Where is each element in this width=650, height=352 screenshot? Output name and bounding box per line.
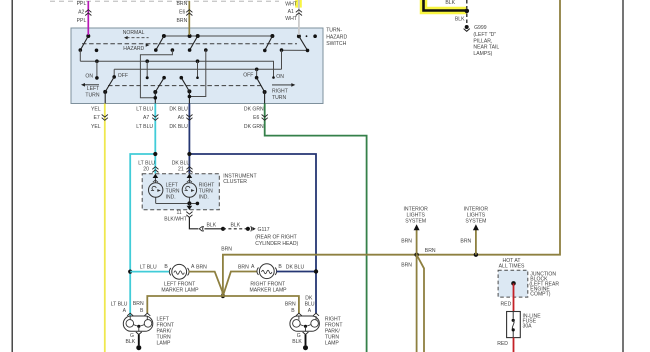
contact dot ON (left) [95,76,99,80]
wire BRN junction to right park lamp [223,296,299,313]
wire BRN down to bottom 1 [416,255,418,352]
wire DK BLU right marker to node [276,271,316,273]
svg-text:BLK: BLK [126,339,136,345]
svg-text:A: A [308,308,312,314]
wire BLK/WHT to G117 [189,217,198,228]
svg-text:CYLINDER HEAD): CYLINDER HEAD) [255,241,298,247]
svg-text:ALL TIMES: ALL TIMES [499,264,525,270]
wire: ON post (left) [96,61,98,78]
contact dot LT BLU blade top [162,76,166,80]
node: BRN junction 2 [474,253,478,257]
contact dot hazard (PPL pole) [95,49,99,53]
connector E6 on BRN [186,10,192,16]
svg-text:BLU: BLU [305,301,315,307]
wire: bus A horizontal [80,61,273,77]
node: BLK junction [465,9,470,14]
connector E6 on DK GRN [262,115,268,121]
switch blade (DK BLU pole) [181,78,189,92]
svg-text:COMPT): COMPT) [530,292,550,298]
svg-text:TURN: TURN [272,95,286,101]
wire: bus B horizontal [114,68,281,70]
svg-text:RIGHT: RIGHT [272,89,288,95]
wire DK BLU branch to right lamps [189,154,316,313]
LT BLU blade pivot [153,90,157,94]
switch blade (right turn) [257,78,265,92]
svg-text:BRN: BRN [425,248,436,254]
DK BLU blade pivot [187,89,191,93]
wire: contact down to bus A [79,50,81,61]
normal direction dashed arrow [127,37,149,39]
svg-text:RIGHT FRONT: RIGHT FRONT [250,282,285,288]
dashed BLK wire to G117 [223,228,248,230]
switch blade (link pole left) [156,36,164,50]
svg-text:TURN: TURN [85,92,99,98]
node: bus A post 3 [196,59,200,63]
top cut dashed line [50,0,279,2]
node: BRN entry [188,34,192,38]
wire WHT from column (top) [298,0,300,35]
node on DK BLU [187,152,191,156]
switch blade (link pole right) [265,36,273,50]
svg-text:11: 11 [177,210,182,216]
node: junction block terminal [511,281,516,286]
ground splice dot [303,345,308,350]
svg-text:(LEFT "D": (LEFT "D" [473,32,496,38]
svg-text:OFF: OFF [243,73,253,79]
pin 20 arrow [153,174,159,178]
svg-text:DK GRN: DK GRN [244,106,264,112]
switch blade (WHT pole) [299,36,308,50]
connector E7 on YEL [102,115,108,121]
node: bus A post 2 [145,59,149,63]
wire DK BLU from switch to cluster [188,104,190,174]
svg-text:NEAR TAIL: NEAR TAIL [473,45,499,51]
wire BRN feed from top right [223,0,560,296]
svg-text:IND.: IND. [166,195,176,201]
wire PPL from column (top) [87,1,89,35]
ground G117 terminal [246,227,250,231]
svg-text:E6: E6 [253,115,259,121]
svg-text:B: B [140,308,144,314]
node: LT BLU pivot feed join [154,96,158,100]
connector A6 on DK BLU [186,115,192,121]
wire BRN up to interior lights 2 [475,230,477,255]
svg-text:A2: A2 [78,10,84,16]
svg-text:BLK: BLK [445,0,455,6]
left front marker lamp L3 [169,268,171,275]
contact dot right (WHT row) [313,34,317,38]
svg-text:BLK: BLK [207,222,217,228]
wire: post 3 down [197,61,199,77]
svg-text:OFF: OFF [118,73,128,79]
svg-text:RED: RED [501,301,512,307]
svg-text:BRN: BRN [401,238,412,244]
contact dot under link pole left [154,48,158,52]
wire: top link line [164,35,273,37]
svg-text:BLK: BLK [292,339,302,345]
wire BLK to splice [205,228,224,230]
connector C1 A2 on PPL [85,10,91,16]
node: PPL entry pivot [86,34,90,38]
connector A1 on WHT [296,10,302,16]
wire BLK ground (right lamp) [305,335,307,346]
node: BRN blade pivot [196,34,200,38]
wire: LT BLU pivot to box edge [154,92,156,104]
svg-text:PILLAR,: PILLAR, [473,38,492,44]
svg-text:BRN: BRN [196,264,207,270]
switch blade (left turn) [105,77,114,92]
switch blade (hazard selector, PPL pole) [80,36,88,50]
wire: feed 2 to DK BLU pivot [189,50,205,96]
wire DK GRN from switch to bottom edge [265,104,367,352]
svg-text:LAMP: LAMP [157,340,171,346]
switch blade (LT BLU pole) [155,78,164,92]
contact dot normal (PPL pole) [79,48,83,52]
contact dot feed 2 [204,48,208,52]
in-line fuse F1 30A [507,312,521,338]
svg-text:CLUSTER: CLUSTER [223,179,247,185]
svg-text:A7: A7 [143,115,149,121]
svg-text:BRN: BRN [285,301,296,307]
svg-text:A: A [191,264,195,270]
svg-text:DK BLU: DK BLU [169,124,188,130]
wire BRN up to interior lights 1 [416,230,418,255]
svg-text:BRN: BRN [460,238,471,244]
node: BRN junction 1 [414,253,418,257]
svg-text:LT BLU: LT BLU [140,264,157,270]
svg-text:BLK: BLK [231,222,241,228]
wire BRN from left marker to junction [189,272,223,296]
connector on ground lead [199,226,203,231]
svg-text:SYSTEM: SYSTEM [465,218,486,224]
wire BLK ground (left lamp) [138,335,140,346]
svg-text:BLK: BLK [455,17,465,23]
pin 21 arrow [187,174,193,178]
left front park/turn lamp L5 [123,316,153,331]
svg-text:HAZARD: HAZARD [123,46,144,52]
svg-text:A: A [251,264,255,270]
svg-text:LAMP: LAMP [325,340,339,346]
ground splice dot [136,345,141,350]
node: bus A / ON post junction [95,59,99,63]
connector on cluster pin 21 [186,167,192,173]
left turn ind lamp L1 [154,178,156,183]
svg-text:G117: G117 [258,227,270,233]
contact dot WHT link left [280,48,284,52]
svg-text:E6: E6 [179,10,185,16]
node: bus end [196,202,200,206]
dashed linkage line (bottom row) [108,85,262,87]
pin sockets right park lamp [296,313,302,316]
svg-text:LAMPS): LAMPS) [473,51,492,57]
svg-text:TURN-: TURN- [326,28,342,34]
left page border [11,0,13,352]
node on DK BLU column [314,269,318,273]
right turn blade pivot [263,90,267,94]
hazard direction arrow [146,43,150,46]
wire: post 2 down [146,61,148,77]
wire: WHT contact link [282,49,308,51]
node: WHT entry pivot [297,34,301,38]
yellow highlight on BLK wire (top right) [424,0,467,11]
svg-text:(REAR OF RIGHT: (REAR OF RIGHT [255,235,297,241]
wire: WHT link down to bus B [281,50,283,69]
wire RED fuse to bottom [513,338,515,352]
svg-text:ON: ON [85,74,93,80]
svg-text:DK BLU: DK BLU [169,106,188,112]
svg-text:LT BLU: LT BLU [136,124,153,130]
svg-text:BRN: BRN [177,1,188,7]
switch blade (BRN pole) [190,36,198,50]
svg-text:HAZARD: HAZARD [326,34,347,40]
right front park/turn lamp L6 [290,316,320,331]
wire BRN junction to left park lamp [147,296,223,313]
svg-text:LT BLU: LT BLU [111,301,128,307]
pin 11 arrow (exit) [187,206,193,210]
svg-text:BRN: BRN [133,301,144,307]
contact dot under BRN pole [188,48,192,52]
svg-text:PPL: PPL [77,1,87,7]
node: link pivot left [162,34,166,38]
svg-text:A6: A6 [178,115,184,121]
contact dot under link pole right [263,49,267,53]
node: central BRN junction [221,294,225,298]
svg-text:SYSTEM: SYSTEM [405,218,426,224]
wire LT BLU branch to left lamps [130,154,155,316]
connector on cluster pin 20 [152,167,158,173]
svg-text:A: A [123,308,127,314]
node: link pivot right [270,34,274,38]
label RIGHT TURN with arrow [272,84,293,86]
wire: cluster ground bus [156,202,198,204]
contact dot post 2 [146,76,149,79]
instrument cluster body [142,174,219,210]
svg-text:DK GRN: DK GRN [244,124,264,130]
wire BRN down to bottom 2 (jog) [417,255,424,352]
svg-text:A1: A1 [288,9,294,15]
ground pin G chevrons [136,332,142,335]
wire RED junction block to fuse [513,283,515,311]
svg-text:B: B [278,264,282,270]
node: DK BLU pivot feed join [188,95,192,99]
svg-text:30A: 30A [523,324,533,330]
svg-text:BRN: BRN [221,246,232,252]
right front marker lamp L4 [257,268,259,275]
wire: right turn pivot to box edge [264,92,266,104]
label LEFT TURN with arrow [83,84,99,86]
svg-text:BRN: BRN [401,263,412,269]
svg-text:SWITCH: SWITCH [326,41,346,47]
contact dot feed 1 [171,48,175,52]
svg-text:PPL: PPL [77,18,87,24]
svg-text:20: 20 [143,167,149,173]
splice node S1 [221,227,225,231]
wire YEL to bottom edge [104,104,106,352]
node: cyan branch to left marker [128,270,132,274]
svg-text:DK BLU: DK BLU [286,264,305,270]
wire BRN feed to right marker [223,272,257,297]
svg-text:LT BLU: LT BLU [136,106,153,112]
svg-text:BRN: BRN [177,18,188,24]
svg-text:BLK/WHT: BLK/WHT [164,217,187,223]
contact dot small (WHT row) [306,35,308,37]
yellow highlight on WHT wire top [295,0,302,8]
svg-text:ON: ON [276,74,284,80]
wire: OFF post right [256,69,258,77]
pin sockets left park lamp [127,313,133,316]
svg-text:YEL: YEL [91,106,101,112]
svg-text:IND.: IND. [199,195,209,201]
node: right lamp to bus [187,201,191,205]
contact dot WHT blade end [306,49,310,53]
svg-text:LEFT: LEFT [87,86,99,92]
svg-text:NORMAL: NORMAL [123,30,145,36]
svg-text:YEL: YEL [91,124,101,130]
dashed BLK wire at G999 [466,0,468,9]
svg-text:MARKER LAMP: MARKER LAMP [250,288,288,294]
connector below pin 11 [186,212,192,218]
svg-text:E7: E7 [94,115,100,121]
contact dot OFF left [112,75,116,79]
wire: feed 1 to LT BLU pivot [140,50,172,98]
wire: OFF post left [113,69,115,77]
ground G999 [465,25,469,29]
left turn blade pivot [103,90,107,94]
svg-text:MARKER LAMP: MARKER LAMP [161,288,199,294]
svg-text:WHT: WHT [285,16,297,22]
wire: left turn pivot to box edge [104,92,106,104]
wire BLK thick (highlighted, top right) [424,0,466,11]
svg-text:WHT: WHT [285,2,297,8]
svg-text:G999: G999 [474,25,487,31]
connector A7 on LT BLU [152,115,158,121]
wire LT BLU from switch to cluster [154,104,156,174]
node on LT BLU [153,152,157,156]
wire LT BLU to left marker pin B [130,271,169,273]
svg-text:21: 21 [178,167,184,173]
contact dot DK BLU blade top [180,76,184,80]
contact dot post 3 [196,76,199,79]
contact dot ON (right, from bus A) [272,76,275,79]
svg-text:BRN: BRN [238,264,249,270]
ground pin G chevrons [303,332,309,335]
svg-text:B: B [164,264,168,270]
right page border [622,0,624,352]
turn-hazard switch U1 body [71,28,323,104]
right turn ind lamp L2 [188,178,190,183]
wire: DK BLU pivot to box edge [188,91,190,103]
contact dot OFF right [255,76,259,80]
wire: bus down to pin 11 [188,203,190,206]
dashed linkage line (top row) [82,43,297,45]
junction block body [498,270,528,297]
wire BRN from column (top) [188,1,190,35]
node: bus B / OFF right post [255,68,259,72]
svg-text:B: B [291,308,295,314]
svg-text:RED: RED [497,341,508,347]
